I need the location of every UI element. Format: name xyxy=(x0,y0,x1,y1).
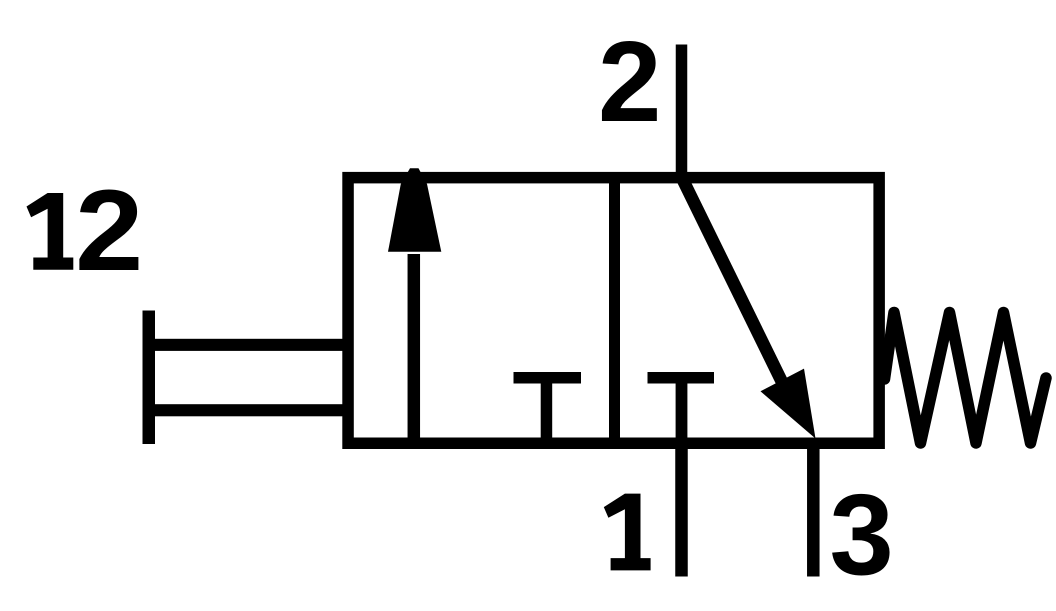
valve body outline xyxy=(348,178,879,444)
plunger actuator bottom rail xyxy=(148,404,348,416)
transfer path wire 2 to 3 (right position) xyxy=(682,177,783,382)
svg-text:2: 2 xyxy=(598,19,661,146)
plunger actuator end plate xyxy=(143,311,156,445)
port 1 line xyxy=(675,440,688,577)
svg-text:2: 2 xyxy=(75,166,143,295)
port label 1 xyxy=(604,494,651,571)
transfer path arrow head xyxy=(761,369,816,439)
plunger actuator top rail xyxy=(148,339,348,351)
flow arrow stem (left position) xyxy=(408,254,421,446)
flow arrow head (left position) xyxy=(388,168,441,252)
position divider wire xyxy=(609,173,620,449)
port 3 line xyxy=(807,440,820,577)
pilot port label 12 xyxy=(27,193,74,270)
return spring xyxy=(885,313,1047,444)
svg-text:3: 3 xyxy=(830,470,894,599)
port 2 line xyxy=(676,45,688,181)
blocked port T (left position) xyxy=(514,372,582,384)
blocked port T (right position) xyxy=(648,372,715,384)
